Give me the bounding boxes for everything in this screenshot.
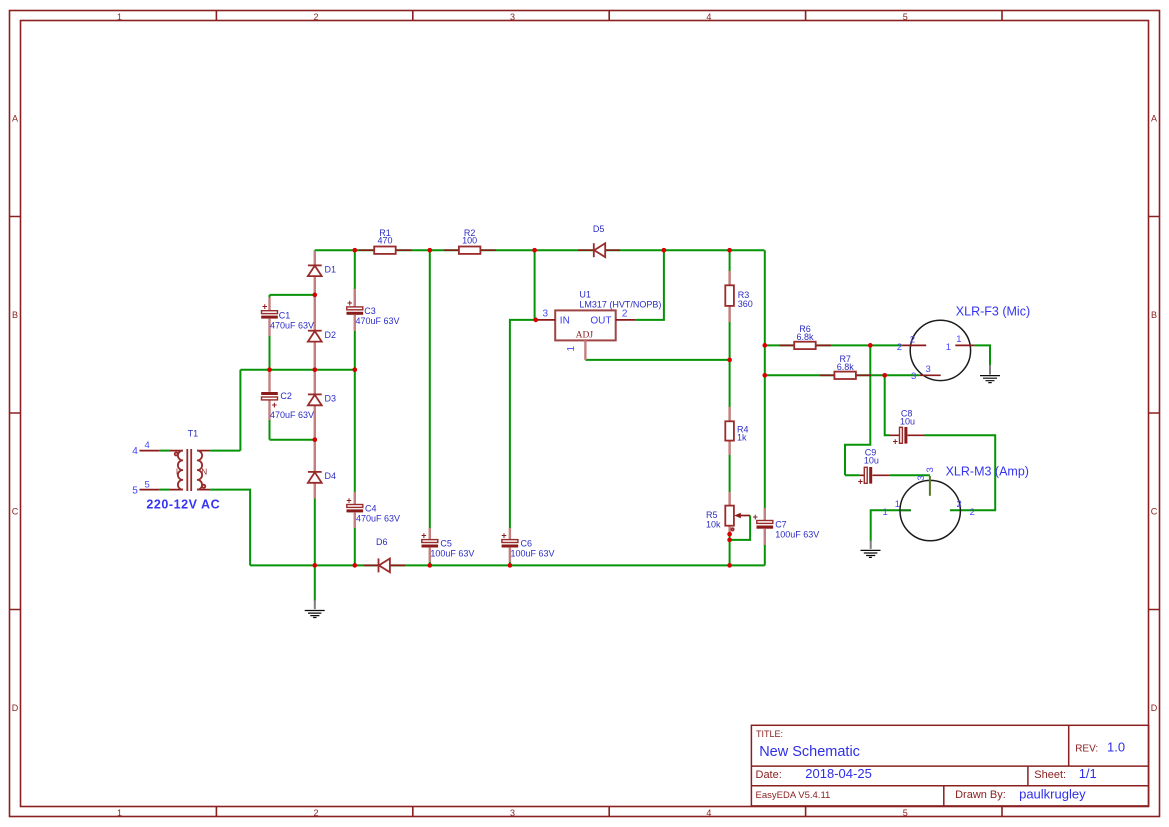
svg-text:5: 5 [903, 808, 908, 818]
transformer T1 [132, 428, 220, 511]
svg-text:A: A [1151, 114, 1157, 124]
T1 secondary polarity dot [202, 485, 205, 488]
svg-text:D2: D2 [325, 330, 337, 340]
svg-text:3: 3 [510, 808, 515, 818]
wire XLR-M3 pin1 to ground [871, 510, 911, 541]
wire C3 C4 column [354, 250, 356, 565]
svg-text:+: + [501, 531, 506, 541]
capacitor C3 [347, 289, 400, 331]
svg-text:1: 1 [895, 499, 900, 510]
svg-text:D5: D5 [593, 224, 605, 234]
svg-text:R5: R5 [706, 510, 718, 520]
wire C1 column [269, 295, 271, 370]
wire IN horizontal / C6 column [510, 320, 536, 566]
diode D4 [308, 442, 336, 499]
ground under diode column [305, 600, 325, 618]
resistor R3 [725, 271, 753, 322]
svg-text:+: + [262, 302, 267, 312]
svg-text:1: 1 [117, 808, 122, 818]
wire diode column [314, 250, 316, 601]
frame top ticks [216, 11, 1002, 21]
svg-text:C1: C1 [279, 311, 291, 321]
svg-text:470uF 63V: 470uF 63V [270, 410, 314, 420]
svg-text:D1: D1 [325, 264, 337, 274]
svg-text:10k: 10k [706, 520, 721, 530]
svg-text:C4: C4 [365, 504, 377, 514]
svg-text:2018-04-25: 2018-04-25 [805, 766, 872, 781]
svg-text:Date:: Date: [756, 769, 782, 781]
frame left ticks [10, 217, 21, 610]
svg-text:C6: C6 [521, 539, 533, 549]
diode D5 [578, 224, 620, 257]
capacitor C4 [346, 492, 400, 528]
wire C8 drop [885, 375, 889, 435]
svg-text:2: 2 [910, 335, 915, 346]
wire right vertical C7 [764, 250, 766, 565]
wire C8 out to XLR-M3 pin2 [925, 435, 996, 510]
capacitor C7 [753, 508, 820, 545]
wire C1 top row [270, 294, 315, 296]
XLR-M3 pin 3 top [929, 476, 931, 496]
svg-text:+: + [893, 436, 898, 446]
resistor R2 [444, 228, 496, 254]
svg-text:D: D [1151, 703, 1158, 713]
resistor R7 [820, 354, 871, 379]
svg-text:100uF 63V: 100uF 63V [775, 529, 819, 539]
svg-text:100uF 63V: 100uF 63V [511, 548, 555, 558]
svg-text:EasyEDA V5.4.11: EasyEDA V5.4.11 [756, 790, 831, 801]
svg-text:1: 1 [946, 342, 951, 353]
svg-text:100: 100 [462, 235, 477, 245]
svg-text:D3: D3 [325, 394, 337, 404]
connector XLR-F3 (Mic) [897, 304, 1030, 382]
svg-text:D6: D6 [376, 537, 388, 547]
svg-text:TITLE:: TITLE: [756, 729, 783, 739]
wire T1 pin4 bridge [159, 450, 170, 452]
svg-text:5: 5 [145, 480, 150, 491]
wire bottom bus [250, 564, 765, 566]
connector XLR-M3 (Amp) [883, 465, 1029, 541]
svg-text:B: B [12, 310, 18, 320]
svg-text:U1: U1 [579, 290, 591, 300]
diode D6 [364, 537, 405, 573]
svg-text:XLR-M3 (Amp): XLR-M3 (Amp) [946, 465, 1029, 479]
svg-text:3: 3 [543, 309, 549, 320]
XLR-F3 pin 1 [955, 344, 974, 346]
svg-text:1k: 1k [737, 433, 747, 443]
wire R5 wiper loop [730, 516, 751, 540]
T1 primary polarity dot [175, 453, 178, 456]
svg-text:4: 4 [145, 440, 150, 451]
svg-text:1: 1 [566, 345, 577, 351]
svg-text:4: 4 [706, 808, 711, 818]
svg-text:+: + [347, 298, 352, 308]
T1 secondary bottom lead [197, 489, 210, 491]
svg-text:+: + [346, 496, 351, 506]
svg-text:470uF 63V: 470uF 63V [356, 316, 400, 326]
svg-text:360: 360 [738, 299, 753, 309]
svg-text:+: + [753, 512, 758, 522]
svg-text:T1: T1 [188, 428, 199, 438]
U1 pin 2 OUT lead [616, 319, 636, 321]
svg-text:B: B [1151, 310, 1157, 320]
XLR-M3 pin 1 [900, 509, 911, 511]
svg-text:IN: IN [560, 316, 570, 327]
svg-text:D4: D4 [325, 471, 337, 481]
wire R6 row [765, 344, 902, 346]
wire IN vertical [534, 250, 536, 320]
diode D1 [308, 251, 336, 293]
svg-text:paulkrugley: paulkrugley [1019, 786, 1086, 801]
svg-text:6.8k: 6.8k [837, 362, 855, 372]
svg-text:2: 2 [970, 507, 975, 518]
svg-text:100uF 63V: 100uF 63V [430, 548, 474, 558]
svg-text:C5: C5 [440, 539, 452, 549]
diode D3 [308, 372, 336, 438]
svg-text:2: 2 [957, 499, 962, 510]
svg-text:4: 4 [132, 446, 138, 457]
svg-text:XLR-F3 (Mic): XLR-F3 (Mic) [956, 304, 1030, 318]
svg-text:220-12V AC: 220-12V AC [146, 497, 220, 511]
svg-text:Drawn By:: Drawn By: [955, 789, 1006, 801]
frame bottom ticks [216, 807, 1002, 817]
svg-text:5: 5 [132, 486, 138, 497]
svg-text:5: 5 [903, 12, 908, 22]
svg-text:New Schematic: New Schematic [759, 744, 860, 760]
svg-text:4: 4 [706, 12, 711, 22]
wire R3 R4 R5 column [729, 250, 731, 565]
capacitor C2 [261, 372, 314, 420]
svg-text:+: + [421, 531, 426, 541]
potentiometer R5 [706, 492, 750, 534]
svg-text:D: D [12, 703, 19, 713]
ground under XLR-F3 [980, 365, 1000, 383]
svg-text:+: + [858, 476, 863, 486]
svg-text:1.0: 1.0 [1107, 740, 1125, 755]
svg-text:1: 1 [883, 507, 888, 518]
capacitor C1 [261, 297, 314, 336]
svg-text:1: 1 [956, 334, 961, 345]
svg-text:C3: C3 [364, 306, 376, 316]
wire C9 row to XLR-M3 pin3 [845, 474, 930, 476]
T1 pin 4 [140, 450, 184, 452]
op-amp regulator U1 LM317 [536, 290, 662, 360]
ground under XLR-M3 [861, 541, 881, 558]
svg-text:I: I [176, 468, 178, 477]
wire C2 column [269, 370, 271, 440]
svg-text:2: 2 [313, 808, 318, 818]
svg-text:C7: C7 [775, 520, 787, 530]
svg-text:10u: 10u [864, 455, 879, 465]
wire T1 top to mid row [210, 370, 240, 451]
svg-text:3: 3 [911, 371, 916, 382]
svg-text:1: 1 [117, 12, 122, 22]
wire T1 bottom to bottom bus [210, 490, 250, 566]
wire C2 bottom row [270, 439, 315, 441]
junction dots [267, 248, 887, 568]
resistor R4 [725, 407, 748, 455]
wire R7 row [765, 374, 920, 376]
svg-text:REV:: REV: [1075, 744, 1098, 755]
svg-text:3: 3 [510, 12, 515, 22]
T1 secondary top lead [197, 450, 210, 452]
svg-text:3: 3 [916, 475, 927, 480]
wire C9 drop [845, 345, 870, 475]
T1 pin 5 [140, 489, 184, 491]
T1 core [187, 449, 191, 491]
svg-text:N: N [201, 468, 207, 477]
diode D2 [308, 297, 336, 367]
capacitor C6 [501, 528, 554, 562]
resistor R6 [780, 324, 831, 349]
svg-text:470uF 63V: 470uF 63V [270, 320, 314, 330]
svg-text:3: 3 [926, 364, 931, 375]
resistor R1 [359, 228, 412, 254]
wire ADJ row [585, 359, 729, 361]
title block [751, 725, 1148, 806]
capacitor C9 [858, 447, 890, 486]
svg-text:ADJ: ADJ [576, 331, 594, 341]
svg-text:3: 3 [925, 467, 936, 472]
U1 pin 1 ADJ lead [584, 340, 586, 360]
capacitor C8 [889, 408, 925, 446]
wire T1 pin5 bridge [159, 489, 170, 491]
svg-text:LM317 (HVT/NOPB): LM317 (HVT/NOPB) [579, 300, 661, 310]
svg-text:470: 470 [377, 235, 392, 245]
U1 pin 3 IN lead [536, 319, 555, 321]
XLR-F3 pin 2 [902, 344, 926, 346]
XLR-F3 pin 3 [919, 374, 940, 376]
wire C5 column [429, 250, 431, 565]
wire top bus [315, 249, 765, 251]
svg-text:1/1: 1/1 [1079, 766, 1097, 781]
T1 secondary winding [197, 451, 202, 490]
svg-text:+: + [272, 400, 277, 410]
svg-text:OUT: OUT [590, 316, 611, 327]
svg-text:2: 2 [313, 12, 318, 22]
svg-text:Sheet:: Sheet: [1034, 769, 1066, 781]
svg-text:2: 2 [622, 309, 628, 320]
frame right ticks [1149, 217, 1160, 610]
svg-text:10u: 10u [900, 416, 915, 426]
svg-text:470uF 63V: 470uF 63V [356, 513, 400, 523]
svg-text:C: C [12, 507, 19, 517]
wire mid row [240, 369, 355, 371]
wire OUT to top bus [635, 250, 664, 320]
svg-text:A: A [12, 114, 18, 124]
svg-text:6.8k: 6.8k [796, 332, 814, 342]
svg-text:2: 2 [897, 342, 902, 353]
wire XLR-F3 pin1 to ground [974, 345, 990, 365]
capacitor C5 [421, 528, 474, 562]
svg-text:C: C [1151, 507, 1158, 517]
T1 primary winding [178, 451, 183, 490]
svg-text:C2: C2 [280, 391, 292, 401]
